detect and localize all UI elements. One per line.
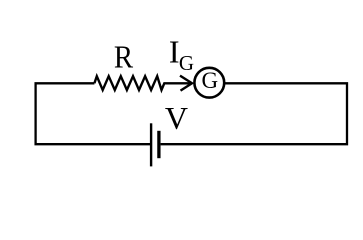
wire left loop (top-left, left side, bottom-left) [36,83,150,144]
wire right loop (top-right, right side, bottom-right) [161,83,347,144]
battery V long plate (positive) [150,123,152,166]
svg-text:V: V [165,100,188,136]
battery V short plate (negative) [157,131,160,158]
galvanometer U1 circle [194,68,224,98]
svg-text:G: G [179,51,194,75]
svg-text:G: G [202,68,219,93]
resistor R1 zigzag [94,76,192,90]
svg-text:R: R [114,39,134,75]
arrowhead of current arrow [180,76,192,91]
